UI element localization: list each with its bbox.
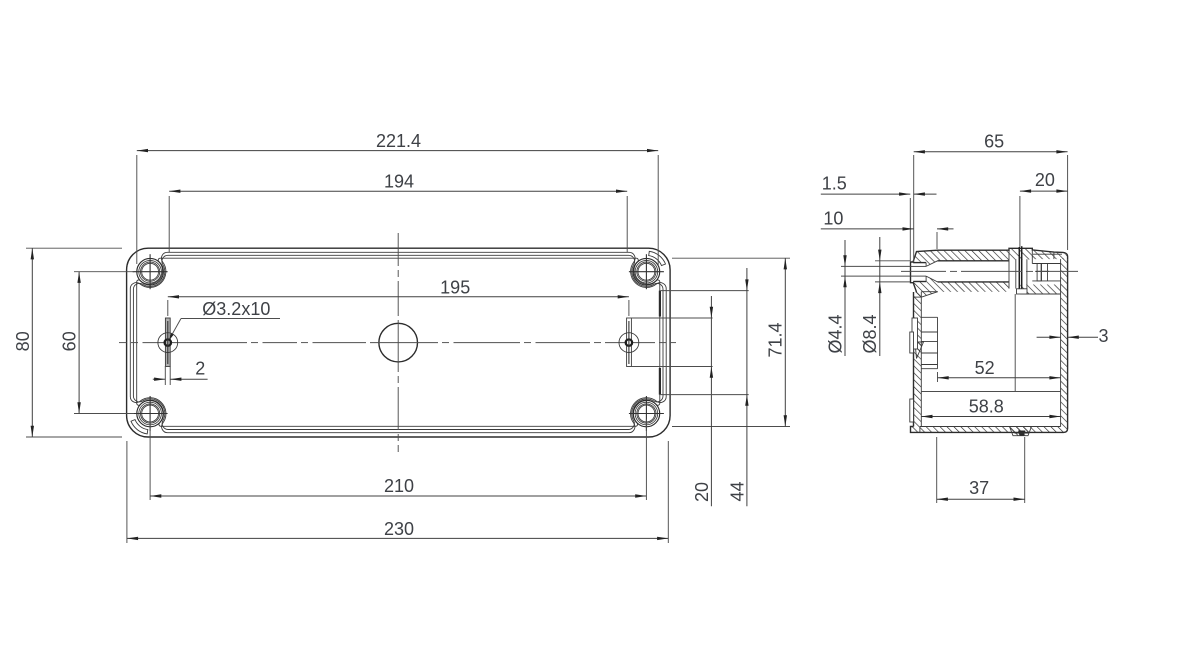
svg-text:Ø4.4: Ø4.4 — [825, 314, 845, 353]
dimension Ø8.4 — [875, 260, 910, 262]
dimension 2 (slot width) — [164, 366, 166, 385]
section outer profile top — [911, 248, 1068, 262]
svg-text:1.5: 1.5 — [822, 173, 847, 193]
section inner left wall edge — [920, 292, 922, 427]
svg-text:221.4: 221.4 — [376, 131, 421, 151]
horizontal centerline — [119, 342, 127, 344]
svg-text:44: 44 — [727, 481, 747, 501]
svg-text:194: 194 — [384, 171, 414, 191]
right mounting slot — [627, 318, 632, 367]
section screw channel white notch — [1017, 289, 1028, 294]
corner screw boss bottom-right — [633, 400, 660, 427]
section snout face and bottom — [911, 262, 917, 292]
right wall rib upper — [659, 291, 661, 317]
section outer bottom — [911, 259, 1068, 432]
section hatch: clamp block — [1009, 248, 1032, 259]
svg-text:20: 20 — [692, 482, 712, 502]
vertical centerline — [397, 233, 399, 266]
svg-text:Ø8.4: Ø8.4 — [860, 314, 880, 353]
svg-text:80: 80 — [13, 331, 33, 351]
svg-text:52: 52 — [975, 358, 995, 378]
dimension 20 (section top) — [1019, 196, 1021, 247]
corner screw boss top-left — [137, 258, 164, 285]
corner screw boss bottom-left — [137, 400, 164, 427]
lid inner wall outline 2 — [133, 255, 663, 429]
section inner right wall edge — [1060, 259, 1062, 426]
section bottom screw mark — [1018, 431, 1026, 436]
section bottom boss outline — [1010, 427, 1032, 436]
section bottom inner edge — [920, 426, 1061, 428]
dimension 195 — [167, 300, 169, 316]
section hatch: top wall band — [913, 250, 1009, 266]
corner screw boss top-right — [633, 258, 660, 285]
section hatch: bottom wall band — [911, 427, 1068, 433]
lid inner wall outline 3 — [137, 258, 660, 426]
svg-text:2: 2 — [195, 359, 205, 379]
svg-text:Ø3.2x10: Ø3.2x10 — [202, 299, 270, 319]
dimension 71.4 — [672, 257, 790, 259]
svg-text:20: 20 — [1035, 170, 1055, 190]
section hatch: band below gland right — [1020, 285, 1060, 295]
section gland centre mark — [1035, 270, 1049, 272]
dimension 210 — [149, 418, 151, 500]
right wall rib lower — [659, 368, 661, 395]
svg-text:210: 210 — [384, 476, 414, 496]
dimension 60 — [74, 271, 134, 273]
section rail wedge — [915, 342, 924, 359]
lid latch wedge mark bottom-left boss — [131, 420, 148, 434]
enclosure outer outline (plan view) — [127, 248, 671, 437]
dimension 3 (wall) — [1037, 336, 1061, 338]
section left outer tab lower — [910, 399, 914, 422]
section hatch: left wall — [914, 292, 922, 427]
svg-text:65: 65 — [984, 132, 1004, 152]
section interior ceiling right — [1020, 293, 1060, 295]
section left outer tab upper — [910, 332, 914, 353]
dimension 230 — [126, 441, 128, 543]
section bore 4.4 lines — [911, 265, 927, 267]
lid latch wedge mark top-right boss — [649, 251, 666, 265]
dimension 58.8 — [921, 416, 1060, 418]
dimension 1.5 — [909, 198, 911, 262]
svg-text:10: 10 — [823, 209, 843, 229]
dimension 65 — [913, 155, 915, 262]
svg-text:230: 230 — [384, 519, 414, 539]
section hatch: bottom wall band — [913, 276, 1009, 292]
svg-text:71.4: 71.4 — [766, 322, 786, 357]
dimension 80 — [26, 247, 122, 249]
left mounting hole — [158, 333, 178, 353]
dimension 44 (right) — [661, 290, 749, 292]
section left wall slot — [912, 318, 918, 349]
svg-text:58.8: 58.8 — [969, 397, 1004, 417]
dimension 221.4 — [136, 155, 138, 264]
section hatch: top band right — [1032, 250, 1067, 259]
section bore 8.4 lines — [938, 260, 1010, 262]
section interior hidden lines — [1014, 294, 1016, 392]
section clamp pillar — [1018, 247, 1020, 289]
svg-text:60: 60 — [60, 331, 80, 351]
dimension Ø4.4 — [841, 265, 911, 267]
dimension 20 (right) — [629, 317, 713, 319]
dimension 194 — [168, 196, 170, 252]
dimension 52 — [937, 372, 939, 382]
section snout inner lines — [913, 262, 926, 264]
dimension 10 (section) — [936, 232, 938, 249]
section hatch: left flange step — [914, 292, 938, 297]
section screw pocket walls — [1015, 259, 1017, 288]
dimension 37 — [936, 437, 938, 503]
section centerline — [901, 270, 946, 272]
svg-text:195: 195 — [440, 277, 470, 297]
right mounting hole — [619, 333, 639, 353]
section interior ceiling left — [921, 291, 937, 293]
section hatch: right wall — [1061, 256, 1068, 427]
left mounting slot (grey) — [165, 318, 170, 367]
central gland hole — [379, 323, 418, 362]
section hatch: bottom screw boss — [1010, 427, 1032, 436]
svg-text:37: 37 — [969, 478, 989, 498]
section gland nut lines — [1032, 263, 1060, 265]
lid inner wall outline 1 — [130, 252, 666, 432]
section pcb rails — [921, 316, 937, 318]
label Ø3.2x10 with leader — [181, 318, 280, 320]
svg-text:3: 3 — [1098, 326, 1108, 346]
